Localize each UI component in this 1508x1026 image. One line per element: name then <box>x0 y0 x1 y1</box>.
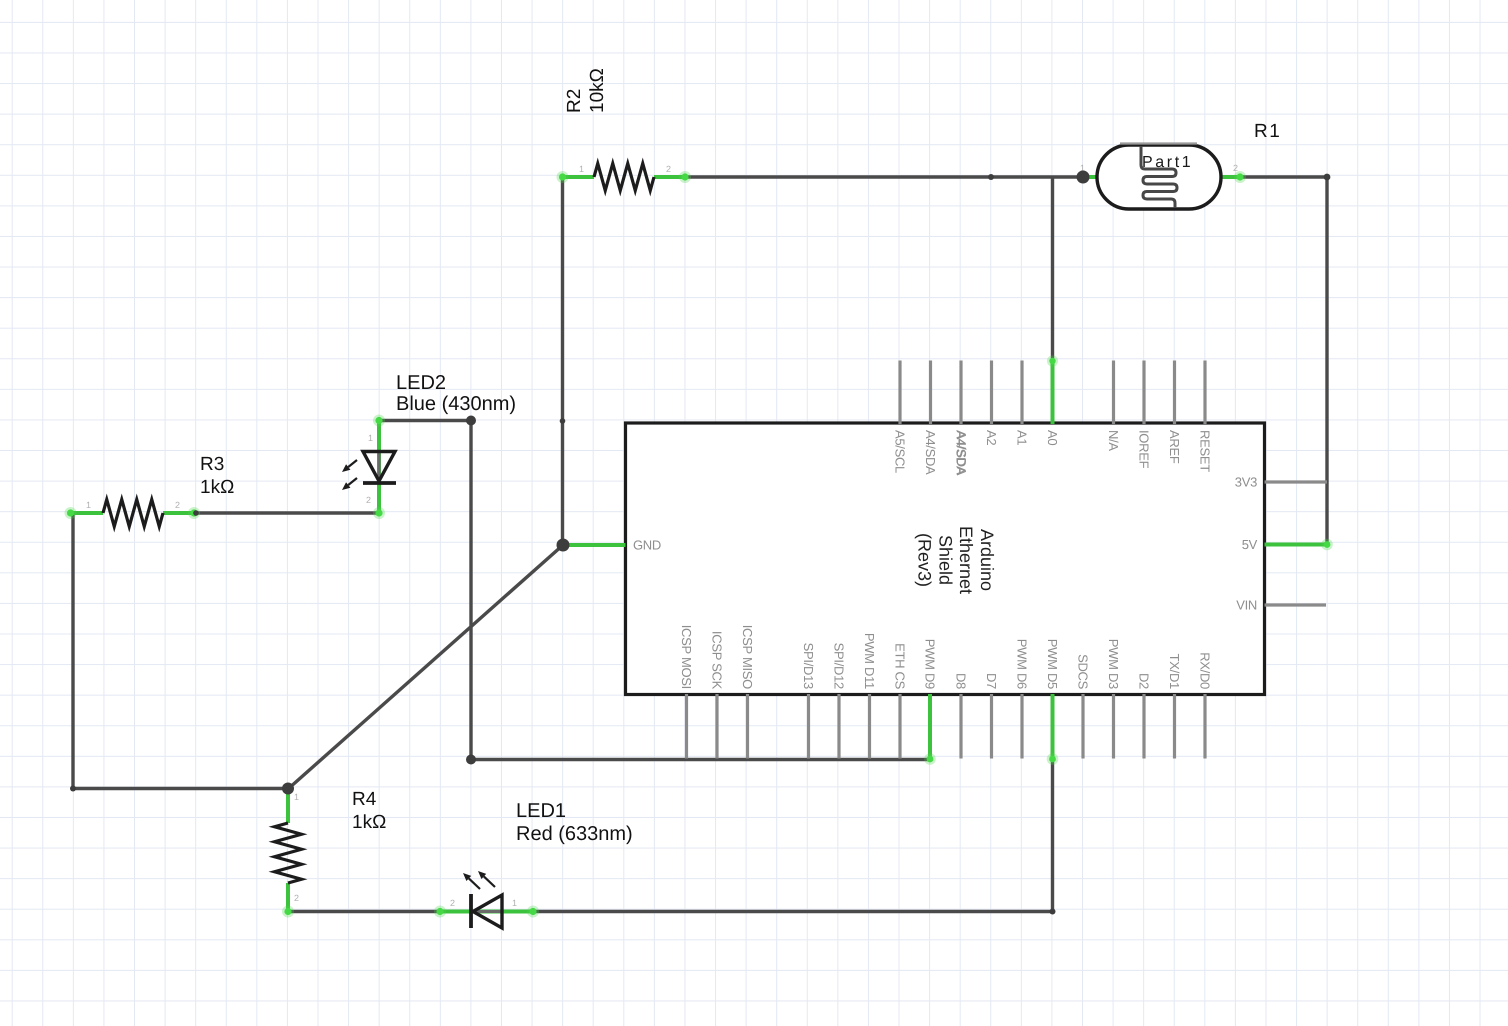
node corner left <box>70 786 76 792</box>
pin PWM D3 (bottom) <box>1112 694 1115 759</box>
node corner R1-5V <box>1324 174 1331 181</box>
svg-text:AREF: AREF <box>1167 430 1182 464</box>
pin TX/D1 (bottom) <box>1173 694 1176 759</box>
svg-text:ICSP SCK: ICSP SCK <box>709 631 724 690</box>
svg-text:2: 2 <box>1233 163 1238 173</box>
svg-text:A1: A1 <box>1014 430 1029 445</box>
svg-text:1: 1 <box>86 500 91 510</box>
svg-text:A5/SCL: A5/SCL <box>892 430 907 473</box>
wire LED1 pin1 to corner <box>533 910 1053 913</box>
pin PWM D5 (bottom) <box>1051 694 1055 759</box>
svg-text:10kΩ: 10kΩ <box>587 68 608 113</box>
resistor R4 1k <box>275 789 387 918</box>
wire R3 pin2 to LED2 cathode <box>196 511 379 514</box>
pin A1 (top) <box>1020 361 1023 425</box>
pin N/A (top) <box>1112 361 1115 425</box>
svg-text:R3: R3 <box>200 454 224 475</box>
wire R3 pin1 down left side <box>71 513 74 789</box>
pin GND (left) <box>563 543 626 547</box>
pin D8 (bottom) <box>959 694 962 759</box>
pin D2 (bottom) <box>1142 694 1145 759</box>
resistor R2 10k <box>557 68 692 190</box>
node PWM D9 endpoint <box>924 753 936 765</box>
svg-text:RESET: RESET <box>1197 430 1212 472</box>
svg-text:SDCS: SDCS <box>1075 654 1090 690</box>
svg-text:1: 1 <box>512 898 517 908</box>
svg-text:Part1: Part1 <box>1142 154 1193 171</box>
node bendpoint on R2-GND wire <box>560 418 566 424</box>
pin SPI/D12 (bottom) <box>837 694 840 759</box>
LED LED1 Red (633nm) <box>434 800 633 928</box>
svg-text:IOREF: IOREF <box>1136 430 1151 469</box>
svg-text:RX/D0: RX/D0 <box>1197 652 1212 689</box>
svg-text:2: 2 <box>294 893 299 903</box>
svg-text:SPI/D13: SPI/D13 <box>801 643 816 689</box>
wire corner up to PWM D5 pin <box>1051 759 1054 912</box>
pin A4/SDA (top) <box>929 361 932 425</box>
node bottom-left junction <box>282 783 294 795</box>
wire LED2 anode to corner junction <box>379 419 471 422</box>
pin A5/SCL (top) <box>898 361 901 425</box>
svg-text:R2: R2 <box>564 89 585 113</box>
svg-text:GND: GND <box>633 538 661 553</box>
pin VIN (right) <box>1265 603 1327 606</box>
pin ETH CS (bottom) <box>898 694 901 759</box>
pin D7 (bottom) <box>990 694 993 759</box>
svg-text:Red (633nm): Red (633nm) <box>516 823 633 845</box>
svg-text:R4: R4 <box>352 789 377 810</box>
resistor R3 1k <box>65 454 235 527</box>
svg-text:N/A: N/A <box>1106 430 1121 451</box>
node 5V endpoint <box>1321 539 1333 551</box>
svg-text:1: 1 <box>294 792 299 802</box>
node GND junction <box>557 539 570 552</box>
node LED2 anode corner junction <box>466 416 476 426</box>
svg-text:Ethernet: Ethernet <box>956 526 976 594</box>
svg-text:(Rev3): (Rev3) <box>915 533 935 587</box>
pin PWM D11 (bottom) <box>868 694 871 759</box>
svg-text:PWM D3: PWM D3 <box>1106 639 1121 689</box>
svg-text:A4/SDA: A4/SDA <box>954 431 969 476</box>
svg-text:PWM D9: PWM D9 <box>922 639 937 689</box>
svg-text:TX/D1: TX/D1 <box>1167 654 1182 689</box>
wire R4 pin2 to LED1 pin2 <box>288 910 440 913</box>
svg-text:VIN: VIN <box>1236 598 1257 613</box>
svg-text:LED1: LED1 <box>516 800 566 822</box>
pin A4/SDA (top) <box>959 361 962 425</box>
wire diagonal GND junction to bottom-left junction <box>288 545 563 789</box>
svg-text:SPI/D12: SPI/D12 <box>831 643 846 689</box>
pin ICSP MISO (bottom) <box>746 694 749 759</box>
svg-text:D7: D7 <box>984 673 999 689</box>
svg-text:LED2: LED2 <box>396 372 446 394</box>
svg-text:3V3: 3V3 <box>1235 475 1257 490</box>
pin A2 (top) <box>990 361 993 425</box>
wire horizontal to PWM D9 pin <box>471 758 930 761</box>
svg-text:ICSP MISO: ICSP MISO <box>740 625 755 689</box>
pin ICSP MOSI (bottom) <box>685 694 688 759</box>
svg-text:1: 1 <box>579 164 584 174</box>
svg-text:2: 2 <box>666 164 671 174</box>
svg-text:Arduino: Arduino <box>977 529 997 591</box>
pin SPI/D13 (bottom) <box>807 694 810 759</box>
wire R1 pin2 to corner <box>1240 175 1327 178</box>
node PWM D5 endpoint <box>1047 753 1059 765</box>
svg-text:ICSP MOSI: ICSP MOSI <box>679 625 694 689</box>
wire bottom-left horizontal to junction <box>73 787 288 790</box>
svg-text:2: 2 <box>450 898 455 908</box>
svg-text:R1: R1 <box>1254 121 1281 142</box>
pin SDCS (bottom) <box>1081 694 1084 759</box>
svg-text:D8: D8 <box>953 673 968 689</box>
wire corner down to 5V pin <box>1325 177 1328 545</box>
svg-text:5V: 5V <box>1242 537 1258 552</box>
pin 3V3 (right) <box>1265 480 1328 483</box>
svg-text:2: 2 <box>175 500 180 510</box>
svg-text:1: 1 <box>368 433 373 443</box>
wire corner junction down <box>469 421 472 760</box>
pin A0 (top) <box>1051 361 1055 425</box>
pin PWM D6 (bottom) <box>1020 694 1023 759</box>
svg-text:PWM D6: PWM D6 <box>1014 639 1029 689</box>
IC U1 Arduino Ethernet Shield (Rev3) body <box>626 423 1265 695</box>
pin RX/D0 (bottom) <box>1203 694 1206 759</box>
LED LED2 Blue (430nm) <box>342 372 516 519</box>
wire R2 pin1 down to GND junction <box>561 177 564 545</box>
svg-text:PWM D11: PWM D11 <box>862 633 877 689</box>
svg-text:A2: A2 <box>984 430 999 445</box>
node R3-LED2 bendpoint <box>193 510 199 516</box>
svg-text:1kΩ: 1kΩ <box>200 477 234 498</box>
wire R2 pin2 to R1 pin1 junction <box>685 175 1083 178</box>
pin ICSP SCK (bottom) <box>715 694 718 759</box>
svg-text:A4/SDA: A4/SDA <box>923 430 938 475</box>
node junction R2/R1/A0 <box>1077 171 1090 184</box>
pin RESET (top) <box>1203 361 1206 425</box>
node A0 wire top endpoint <box>1047 355 1058 366</box>
photoresistor R1 (LDR Part1) <box>1080 121 1281 209</box>
node bendpoint <box>988 174 994 180</box>
wire junction to A0 pin <box>1051 177 1054 361</box>
svg-text:1kΩ: 1kΩ <box>352 812 386 833</box>
svg-text:D2: D2 <box>1136 673 1151 689</box>
svg-text:Blue (430nm): Blue (430nm) <box>396 393 516 415</box>
svg-text:ETH CS: ETH CS <box>892 643 907 690</box>
node corner junction lower <box>466 755 476 765</box>
svg-text:Shield: Shield <box>936 535 956 585</box>
pin 5V (right) <box>1265 543 1328 547</box>
pin AREF (top) <box>1173 361 1176 425</box>
pin IOREF (top) <box>1142 361 1145 425</box>
svg-text:2: 2 <box>366 495 371 505</box>
pin PWM D9 (bottom) <box>928 694 932 759</box>
svg-text:A0: A0 <box>1045 430 1060 445</box>
svg-text:PWM D5: PWM D5 <box>1045 639 1060 689</box>
node corner LED1-D5 <box>1050 909 1056 915</box>
